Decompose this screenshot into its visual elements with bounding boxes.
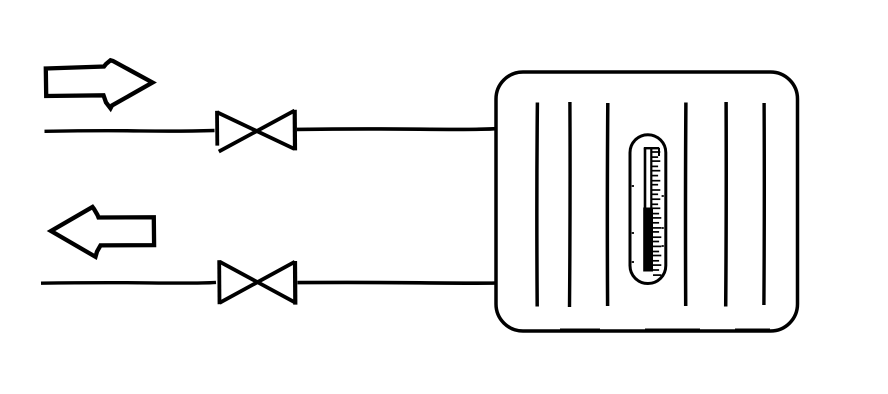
valve V2 diagonal bottom-left to top-right — [220, 262, 295, 303]
wire: bottom pipe left segment — [41, 281, 216, 285]
valve V2 diagonal top-left to bottom-right — [220, 262, 295, 303]
fin line 4 — [684, 103, 688, 307]
gauge capsule inner edge nubs — [632, 186, 634, 262]
gauge scale ticks — [652, 152, 661, 275]
fin line 3 — [606, 103, 610, 306]
fin line 6 — [762, 103, 766, 305]
gauge ruler top cap — [644, 147, 659, 149]
gauge tube right line (above mercury) — [650, 148, 652, 209]
wire: bottom pipe right segment into box — [298, 281, 497, 285]
gauge cap right corner — [658, 148, 660, 156]
gauge G1 outer capsule — [630, 135, 666, 284]
flow arrow left (return) — [51, 207, 154, 257]
valve V1 diagonal bottom-left to top-right — [219, 111, 295, 152]
radiator body (rounded box) — [496, 72, 798, 331]
fin line 5 — [724, 102, 728, 307]
flow arrow right (supply) — [46, 60, 153, 108]
wire: top pipe right segment into box — [297, 127, 496, 131]
valve V2 (bottom) left seat bar — [217, 260, 221, 304]
gauge mercury column — [643, 208, 653, 272]
wire: top pipe left segment — [45, 129, 215, 133]
valve V2 right seat bar — [293, 261, 297, 305]
valve V1 diagonal top-left to bottom-right — [217, 112, 294, 148]
fin line 1 — [535, 103, 539, 307]
radiator bottom edge roughness — [560, 329, 770, 331]
gauge tube left line — [644, 148, 647, 271]
valve V1 (top) left seat bar — [215, 111, 219, 146]
fin line 2 — [568, 102, 572, 307]
valve V1 right seat bar — [293, 110, 297, 151]
